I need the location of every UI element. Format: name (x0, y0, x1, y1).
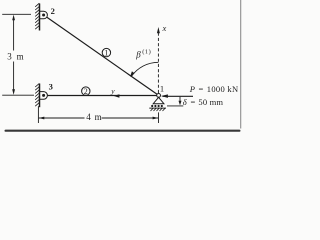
member label circle 1 (102, 48, 110, 57)
svg-text:3 m: 3 m (7, 52, 25, 62)
dimension 4 m: left extension line (37, 106, 39, 123)
svg-text:2: 2 (84, 87, 88, 96)
angle arc beta(1) (132, 62, 159, 76)
member 2 (horizontal bar, node 3 to node 1) (48, 95, 159, 97)
svg-text:=: = (199, 84, 204, 94)
dimension 4 m: right arrowhead (153, 117, 159, 120)
svg-text:x: x (162, 23, 167, 33)
dimension 3 m: vertical dimension line with gap for text (13, 19, 15, 51)
dimension 3 m: bottom arrowhead (12, 89, 15, 95)
dimension 4 m: left arrowhead (39, 117, 45, 120)
pin node 2 (42, 14, 45, 17)
dimension 3 m: top extension line (2, 13, 31, 15)
dimension 3 m: bottom extension line (2, 94, 34, 96)
svg-text:(1): (1) (142, 49, 151, 56)
dimension 4 m: dimension line with gap for text (39, 117, 85, 119)
pin bracket node 2 (40, 11, 47, 19)
deflection arrow (delta, downward) (179, 97, 181, 101)
angle arc arrowhead (130, 71, 135, 77)
ground line under roller support (149, 107, 166, 109)
svg-text:50 mm: 50 mm (198, 97, 223, 107)
svg-text:δ: δ (183, 97, 188, 107)
svg-text:2: 2 (51, 6, 55, 16)
dimension 3 m: top arrowhead (12, 15, 15, 21)
roller circles (151, 105, 163, 107)
roller support triangle at node 1 (153, 97, 164, 103)
deflection text delta = 50 mm (183, 97, 224, 107)
ground hatching (151, 108, 166, 111)
dimension 4 m: right extension line (158, 112, 160, 123)
svg-text:P: P (189, 84, 195, 94)
x axis arrowhead (157, 27, 160, 33)
svg-text:1000 kN: 1000 kN (207, 84, 239, 94)
deflection reference line (167, 105, 183, 107)
angle label beta(1) (135, 49, 151, 60)
wall support at node 2 (35, 3, 39, 30)
load P arrowhead (161, 94, 168, 98)
scan border bottom bar (5, 130, 241, 132)
y axis arrowhead on member 2 (114, 94, 120, 98)
pin node 3 (42, 94, 45, 97)
svg-text:4 m: 4 m (86, 112, 102, 122)
svg-text:1: 1 (160, 84, 164, 94)
member 1 (diagonal bar, node 2 to node 1) (47, 17, 159, 95)
svg-text:1: 1 (104, 49, 108, 58)
svg-text:β: β (135, 49, 141, 59)
x axis (dashed) (157, 33, 159, 93)
svg-text:y: y (110, 86, 115, 95)
member label circle 2 (82, 87, 90, 96)
scan border right edge (240, 0, 242, 129)
svg-text:3: 3 (49, 81, 53, 91)
load P arrow shaft (163, 95, 194, 97)
node 1 joint circle (157, 94, 161, 98)
load text P = 1000 kN (189, 84, 239, 94)
pin bracket node 3 (40, 92, 47, 100)
svg-text:=: = (191, 97, 196, 107)
wall support at node 3 (35, 83, 39, 107)
